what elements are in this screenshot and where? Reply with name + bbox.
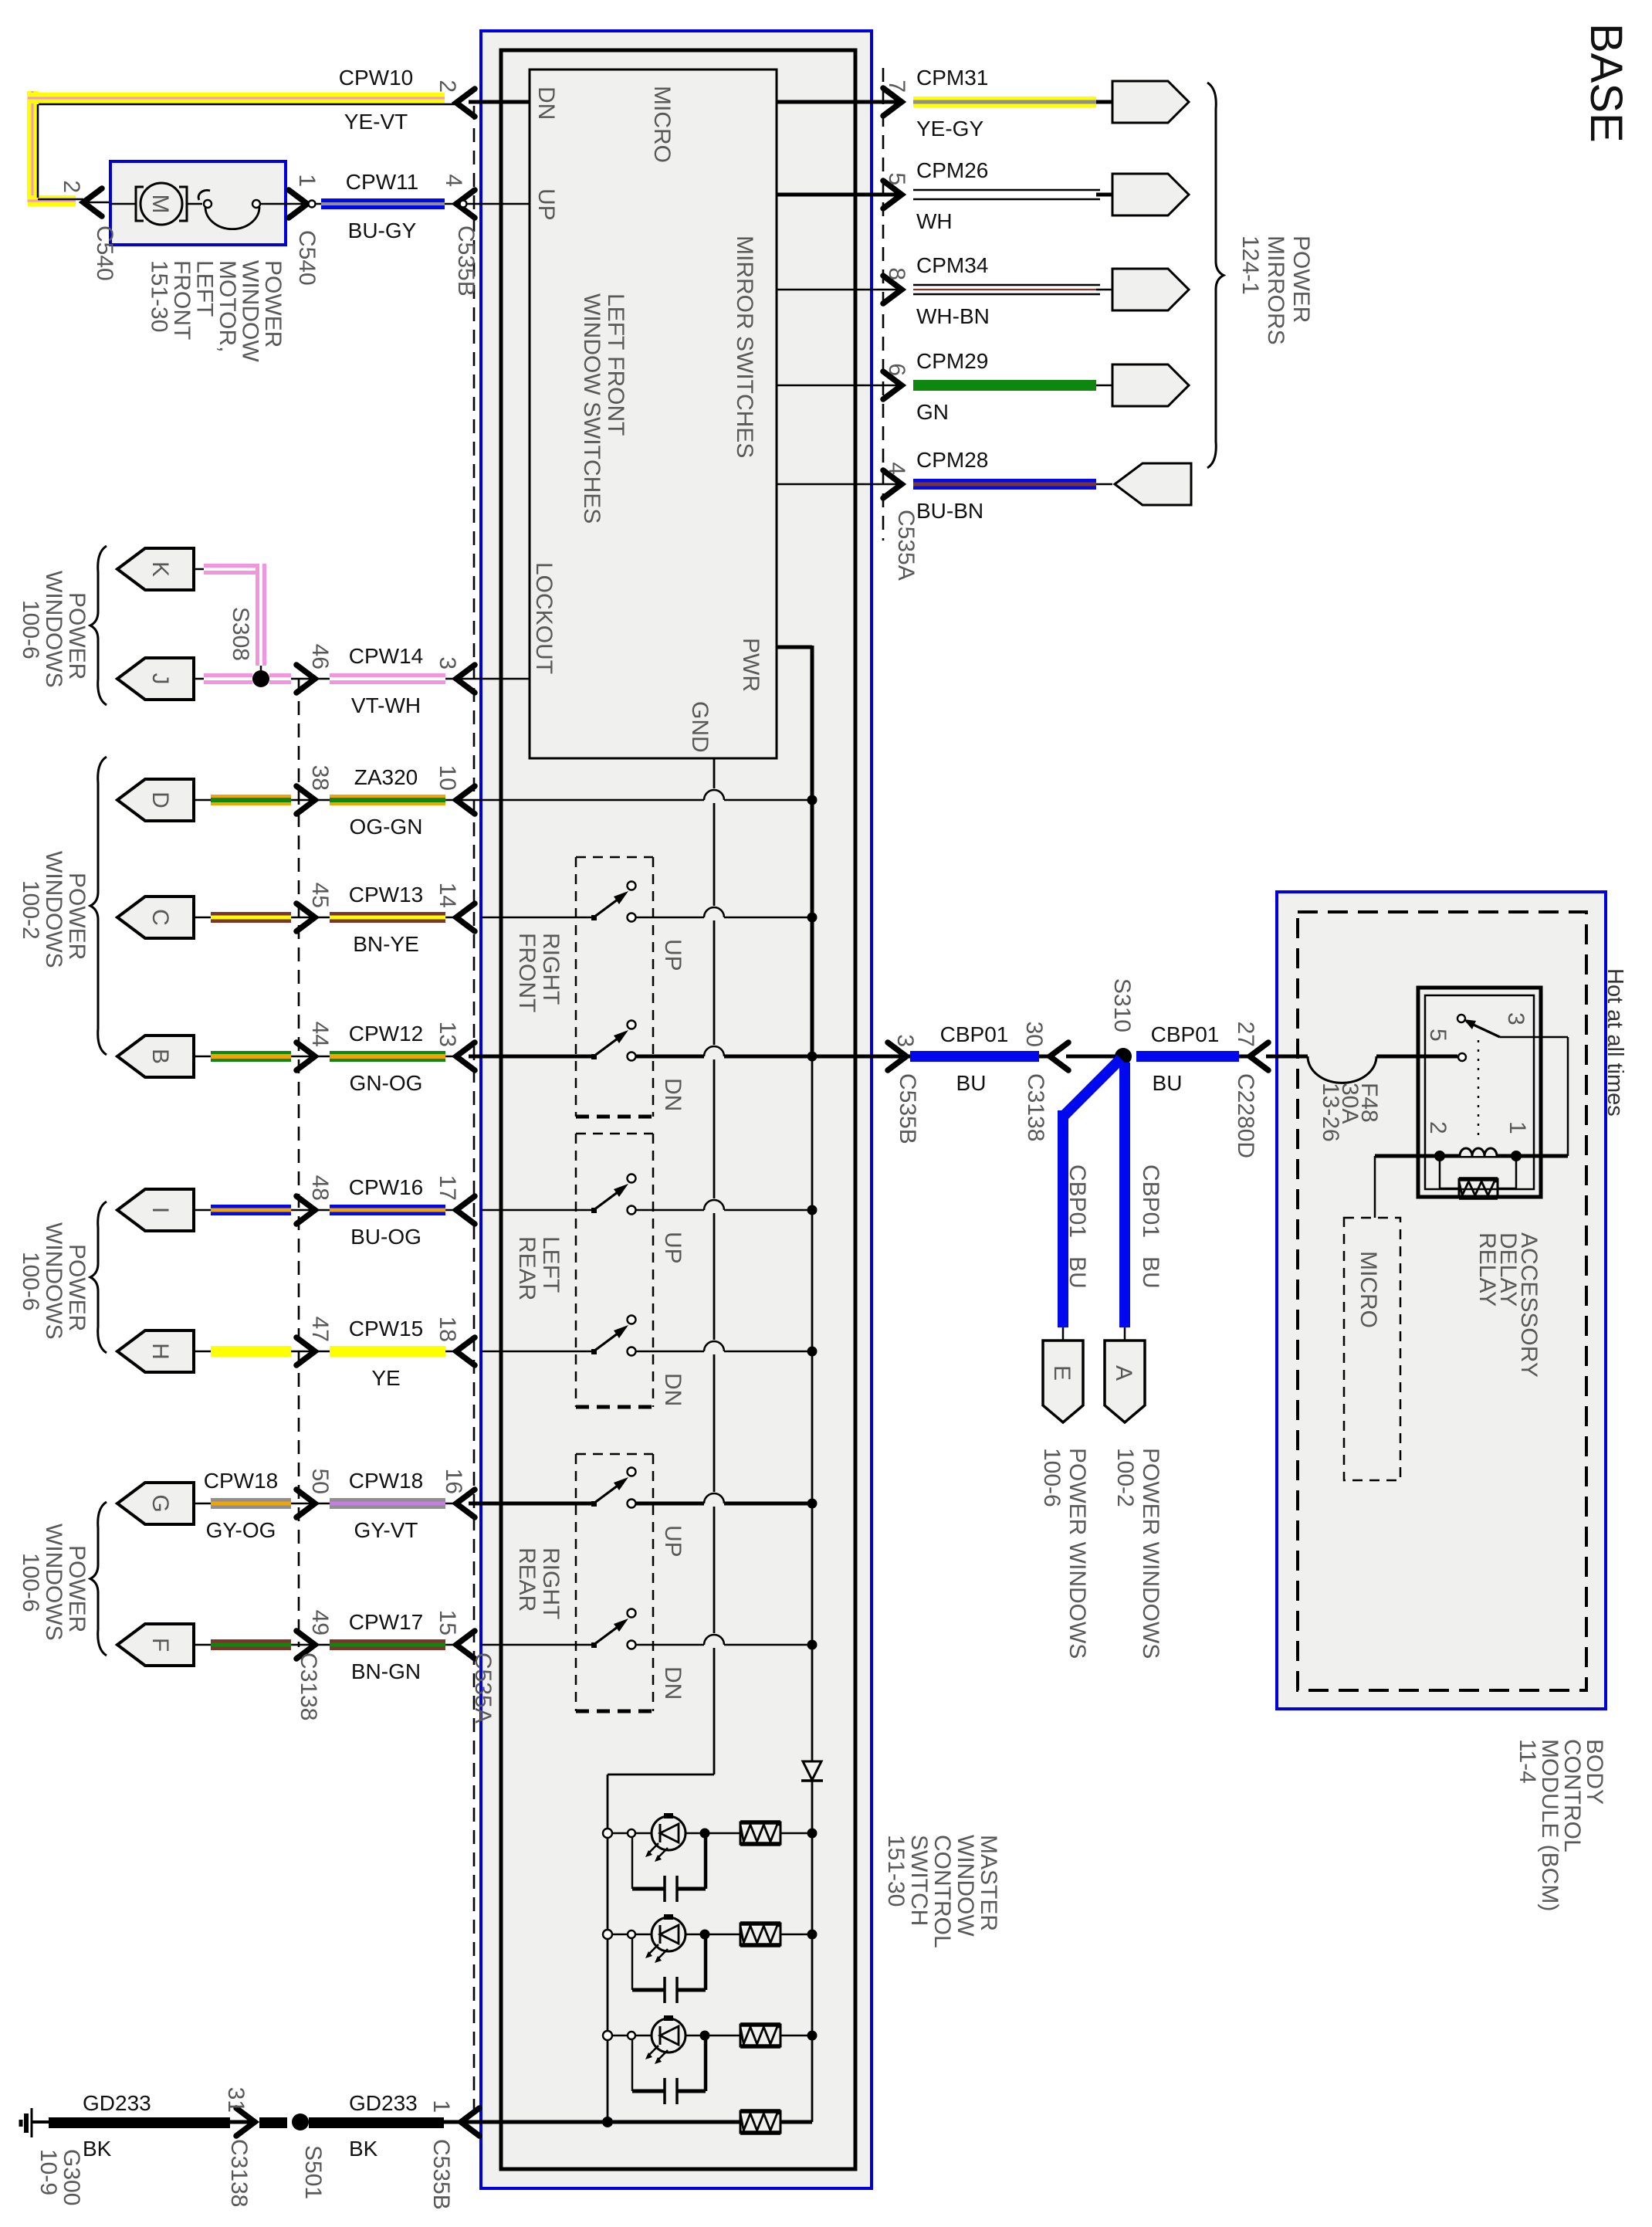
svg-text:C3138: C3138 <box>1023 1073 1048 1141</box>
svg-text:18: 18 <box>435 1317 460 1342</box>
label DN (right front) <box>660 1078 686 1111</box>
label ACCESSORY DELAY RELAY <box>1474 1232 1542 1378</box>
svg-text:3: 3 <box>1503 1012 1528 1025</box>
svg-text:MICRO: MICRO <box>1356 1251 1381 1328</box>
label C535A (mirror side) <box>893 510 919 581</box>
label RIGHT REAR <box>514 1547 564 1619</box>
capacitor C2 (LED row 2) <box>632 1938 706 2003</box>
wire CBP01 BU branch E <box>1058 1059 1121 1341</box>
connector E <box>1043 1341 1083 1422</box>
svg-text:GY-VT: GY-VT <box>354 1518 418 1542</box>
svg-text:CPW12: CPW12 <box>349 1022 423 1046</box>
svg-text:POWER: POWER <box>64 873 90 960</box>
master window control switch module (blue box) <box>481 31 872 2188</box>
label MASTER WINDOW CONTROL SWITCH 151-30 <box>883 1835 1001 1948</box>
label MIRROR SWITCHES <box>732 236 757 458</box>
brace power mirrors <box>1207 83 1224 468</box>
LED indicator 1 <box>603 1813 818 1862</box>
svg-text:BU: BU <box>1065 1256 1090 1289</box>
connector I / wire CPW16 BU-OG <box>117 1175 475 1249</box>
svg-text:BASE: BASE <box>1581 23 1631 143</box>
label Hot at all times <box>1603 968 1627 1117</box>
svg-text:GN: GN <box>916 400 949 424</box>
label UP (left rear) <box>660 1232 686 1264</box>
svg-text:3: 3 <box>435 656 460 669</box>
svg-text:5: 5 <box>1425 1029 1451 1042</box>
svg-text:CPW16: CPW16 <box>349 1175 423 1199</box>
power window motor left front box <box>110 161 286 245</box>
connector line C535A mirror side (dashed) <box>882 68 885 541</box>
svg-text:S310: S310 <box>1109 978 1135 1032</box>
label POWER WINDOWS 100-6 (K J) <box>18 571 90 688</box>
LED indicator 2 <box>603 1914 818 1963</box>
svg-text:CBP01: CBP01 <box>940 1022 1009 1046</box>
svg-text:BU: BU <box>1153 1071 1183 1095</box>
svg-text:GND: GND <box>687 701 713 753</box>
label UP (right rear) <box>660 1525 686 1558</box>
svg-text:100-6: 100-6 <box>1039 1448 1065 1507</box>
connector G / wire CPW18 GY-OG / GY-VT <box>117 1469 475 1542</box>
connector J <box>117 658 194 700</box>
label POWER WINDOWS 100-2 <box>18 851 90 968</box>
label UP (right front) <box>660 939 686 971</box>
svg-text:10-9: 10-9 <box>36 2149 61 2195</box>
svg-text:F: F <box>147 1638 173 1652</box>
wire CPM31 YE-GY <box>777 66 1112 141</box>
wire CBP01 BU branch A <box>1119 1063 1163 1341</box>
svg-text:Hot at all times: Hot at all times <box>1603 968 1627 1117</box>
svg-text:POWER: POWER <box>64 592 90 680</box>
wire CBP01 BU (S310 to BCM) <box>1151 1022 1308 1158</box>
svg-text:CBP01: CBP01 <box>1151 1022 1220 1046</box>
svg-text:DN: DN <box>533 86 559 120</box>
connector K <box>117 548 194 590</box>
svg-text:BU-OG: BU-OG <box>350 1225 421 1249</box>
svg-text:GD233: GD233 <box>83 2091 151 2115</box>
relay contact wire to pin 1 <box>1500 1037 1568 1156</box>
relay coil <box>1375 1148 1568 1161</box>
svg-text:6: 6 <box>884 363 909 376</box>
connector B / wire CPW12 GN-OG <box>117 1022 475 1095</box>
connector line C3138 (dashed) <box>298 679 300 1647</box>
svg-text:LOCKOUT: LOCKOUT <box>531 562 557 674</box>
label RIGHT FRONT <box>514 933 564 1012</box>
switch left rear DN <box>481 1316 818 1357</box>
connector F / wire CPW17 BN-GN <box>117 1610 475 1683</box>
svg-text:YE: YE <box>371 1366 400 1390</box>
svg-text:POWER WINDOWS: POWER WINDOWS <box>1138 1448 1163 1659</box>
svg-text:S501: S501 <box>300 2145 326 2199</box>
svg-text:J: J <box>147 673 173 685</box>
PWR feed from switch block <box>777 646 812 1761</box>
svg-text:LEFT: LEFT <box>538 1236 564 1293</box>
svg-text:BN-YE: BN-YE <box>353 932 419 956</box>
svg-text:CPM29: CPM29 <box>916 349 988 373</box>
svg-text:UP: UP <box>533 188 559 221</box>
svg-text:124-1: 124-1 <box>1237 236 1263 295</box>
mirror connector (CPM31) <box>1112 81 1189 123</box>
svg-text:11-4: 11-4 <box>1515 1739 1540 1784</box>
svg-text:K: K <box>147 561 173 577</box>
svg-text:WINDOWS: WINDOWS <box>41 1222 66 1340</box>
motor circuit breaker <box>187 190 286 229</box>
splice S310 <box>1109 978 1135 1065</box>
svg-text:100-2: 100-2 <box>18 880 43 940</box>
svg-text:WINDOWS: WINDOWS <box>41 571 66 688</box>
svg-text:16: 16 <box>441 1469 466 1494</box>
svg-text:C535B: C535B <box>453 225 479 297</box>
svg-text:MOTOR,: MOTOR, <box>215 260 240 352</box>
svg-text:REAR: REAR <box>514 1547 540 1612</box>
label PWR <box>738 638 763 692</box>
left front window switches block <box>530 69 777 758</box>
svg-text:14: 14 <box>435 883 460 908</box>
svg-text:VT-WH: VT-WH <box>351 693 421 717</box>
wire ZA320 inside module to PWR bus <box>456 790 818 805</box>
svg-text:UP: UP <box>660 939 686 971</box>
svg-text:POWER WINDOWS: POWER WINDOWS <box>1065 1448 1090 1659</box>
label POWER WINDOWS 100-6 (I H) <box>18 1222 90 1340</box>
connector line C535B/C535A (dashed) <box>473 106 476 2124</box>
label LOCKOUT <box>531 562 557 674</box>
svg-text:DN: DN <box>660 1373 686 1406</box>
label UP pin <box>533 188 559 221</box>
svg-text:4: 4 <box>884 462 909 475</box>
svg-text:31: 31 <box>223 2087 249 2113</box>
svg-text:38: 38 <box>307 765 333 791</box>
svg-text:POWER: POWER <box>64 1545 90 1632</box>
svg-text:100-6: 100-6 <box>18 1553 43 1612</box>
splice S308 <box>228 607 269 687</box>
micro dashed box (BCM) <box>1344 1218 1400 1480</box>
wire CPW14 VT-WH <box>194 644 530 717</box>
mirror connector (CPM28, left pointing) <box>1115 463 1191 505</box>
svg-text:C: C <box>147 909 173 926</box>
switch right rear UP (thick) <box>469 1468 818 1509</box>
switch left rear UP <box>481 1175 818 1215</box>
svg-text:LEFT FRONT: LEFT FRONT <box>603 293 628 436</box>
label LEFT REAR <box>514 1236 564 1300</box>
label DN (right rear) <box>660 1666 686 1700</box>
svg-text:44: 44 <box>307 1022 333 1047</box>
capacitor C1 (LED row 1) <box>632 1837 706 1902</box>
motor M symbol <box>110 183 187 225</box>
svg-text:BU: BU <box>1138 1256 1163 1289</box>
label DN pin <box>533 86 559 120</box>
svg-text:MIRROR SWITCHES: MIRROR SWITCHES <box>732 236 757 458</box>
svg-text:I: I <box>147 1207 173 1213</box>
svg-text:WINDOW: WINDOW <box>953 1835 978 1937</box>
svg-text:1: 1 <box>294 174 320 187</box>
wire CPW10 YE-VT <box>27 66 530 216</box>
svg-text:49: 49 <box>307 1610 333 1636</box>
svg-text:CPM31: CPM31 <box>916 66 988 90</box>
label GND <box>687 701 713 753</box>
capacitor C3 (LED row 3) <box>632 2039 706 2104</box>
svg-text:MIRRORS: MIRRORS <box>1263 236 1288 345</box>
right rear switch dashed box <box>576 1454 653 1711</box>
label POWER WINDOWS 100-6 (E) <box>1039 1448 1090 1659</box>
svg-text:WH-BN: WH-BN <box>916 304 990 328</box>
wire CPM28 BU-BN <box>777 448 1112 523</box>
svg-text:C535A: C535A <box>893 510 919 581</box>
fuse F48 30A 13-26 <box>1266 1056 1457 1142</box>
svg-text:RELAY: RELAY <box>1474 1232 1500 1307</box>
svg-text:151-30: 151-30 <box>883 1835 909 1907</box>
left rear switch dashed box <box>576 1134 653 1407</box>
connector A <box>1105 1341 1145 1422</box>
svg-text:BK: BK <box>83 2137 112 2161</box>
svg-text:C3138: C3138 <box>226 2139 252 2207</box>
svg-text:REAR: REAR <box>514 1236 540 1300</box>
switch right front UP <box>481 882 818 923</box>
svg-text:45: 45 <box>307 883 333 908</box>
switch right front DN (thick trunk) <box>469 1021 872 1062</box>
svg-text:UP: UP <box>660 1232 686 1264</box>
mirror connector (CPM29) <box>1112 364 1189 406</box>
svg-text:RIGHT: RIGHT <box>538 933 564 1005</box>
svg-text:WINDOWS: WINDOWS <box>41 1524 66 1641</box>
svg-text:CPW11: CPW11 <box>346 170 418 194</box>
connector C540 labels <box>92 225 320 286</box>
svg-text:SWITCH: SWITCH <box>906 1835 932 1926</box>
svg-text:C535B: C535B <box>428 2139 454 2210</box>
label LEFT FRONT WINDOW SWITCHES <box>579 293 628 524</box>
svg-text:BU-BN: BU-BN <box>916 499 983 523</box>
ground G300 <box>21 2108 50 2137</box>
wire CPM34 WH-BN <box>777 253 1112 328</box>
svg-text:BU-GY: BU-GY <box>348 219 417 242</box>
svg-text:13-26: 13-26 <box>1318 1083 1343 1142</box>
mirror connector (CPM34) <box>1112 269 1189 310</box>
svg-text:WINDOW SWITCHES: WINDOW SWITCHES <box>579 293 604 524</box>
svg-text:CPM34: CPM34 <box>916 253 988 277</box>
svg-text:15: 15 <box>435 1610 460 1636</box>
svg-text:G: G <box>147 1494 173 1512</box>
svg-text:BU: BU <box>956 1071 987 1095</box>
accessory delay relay box <box>1418 988 1541 1197</box>
wire CPM26 WH <box>777 158 1112 233</box>
svg-text:D: D <box>147 791 173 808</box>
svg-text:30: 30 <box>1021 1022 1047 1047</box>
connector C / wire CPW13 BN-YE <box>117 883 475 956</box>
svg-text:FRONT: FRONT <box>169 260 195 340</box>
svg-text:GY-OG: GY-OG <box>206 1518 276 1542</box>
svg-text:CONTROL: CONTROL <box>929 1835 955 1948</box>
wire CPW11 BU-GY <box>286 170 530 297</box>
svg-text:1: 1 <box>1505 1121 1530 1134</box>
connector D / wire ZA320 OG-GN <box>117 765 475 839</box>
splice S501 <box>259 2113 326 2199</box>
svg-text:CPW15: CPW15 <box>349 1317 423 1341</box>
svg-text:CPW14: CPW14 <box>349 644 423 668</box>
svg-text:CPW17: CPW17 <box>349 1610 423 1634</box>
label POWER WINDOW MOTOR LEFT FRONT 151-30 <box>147 260 286 362</box>
svg-text:CBP01: CBP01 <box>1138 1164 1163 1238</box>
label POWER WINDOWS 100-2 (A) <box>1112 1448 1163 1659</box>
svg-text:13: 13 <box>435 1022 460 1047</box>
svg-text:C540: C540 <box>92 225 117 281</box>
svg-text:S308: S308 <box>228 607 253 661</box>
label DN (left rear) <box>660 1373 686 1406</box>
brace power windows 100-2 (D C B) <box>90 757 107 1055</box>
svg-text:48: 48 <box>307 1175 333 1201</box>
wire GD233 BK (right) <box>309 2091 613 2210</box>
svg-text:DN: DN <box>660 1078 686 1111</box>
svg-text:WH: WH <box>916 209 953 233</box>
svg-text:BK: BK <box>349 2137 378 2161</box>
svg-text:CPW18: CPW18 <box>349 1469 423 1493</box>
svg-text:2: 2 <box>435 80 460 93</box>
svg-text:1: 1 <box>428 2100 454 2113</box>
switch right rear DN <box>481 1609 818 1650</box>
label POWER MIRRORS 124-1 <box>1237 236 1314 345</box>
wire CBP01 BU (module to S310) <box>872 1022 1239 1144</box>
master window control switch outer outline <box>501 50 855 2169</box>
svg-text:46: 46 <box>307 644 333 669</box>
svg-text:A: A <box>1111 1365 1136 1381</box>
svg-text:151-30: 151-30 <box>147 260 172 332</box>
svg-text:RIGHT: RIGHT <box>538 1547 564 1619</box>
svg-text:BN-GN: BN-GN <box>351 1659 421 1683</box>
svg-text:C3138: C3138 <box>296 1652 321 1720</box>
svg-text:100-6: 100-6 <box>18 600 43 659</box>
svg-text:G300: G300 <box>59 2149 84 2205</box>
svg-text:C2280D: C2280D <box>1233 1073 1258 1158</box>
svg-text:CPM26: CPM26 <box>916 158 988 182</box>
svg-text:100-6: 100-6 <box>18 1252 43 1311</box>
wire relay to micro <box>1374 1156 1376 1218</box>
svg-text:GD233: GD233 <box>349 2091 418 2115</box>
label G300 10-9 <box>36 2149 84 2205</box>
svg-text:C540: C540 <box>294 230 320 286</box>
mirror connector (CPM26) <box>1112 174 1189 215</box>
svg-text:47: 47 <box>307 1317 333 1342</box>
svg-text:10: 10 <box>435 765 460 791</box>
wire CPM29 GN <box>777 349 1112 424</box>
title BASE <box>1581 23 1631 143</box>
svg-text:CPM28: CPM28 <box>916 448 988 472</box>
label POWER WINDOWS 100-6 (G F) <box>18 1524 90 1641</box>
label BODY CONTROL MODULE (BCM) 11-4 <box>1515 1739 1607 1911</box>
svg-text:LEFT: LEFT <box>192 260 218 317</box>
svg-text:UP: UP <box>660 1525 686 1558</box>
svg-text:50: 50 <box>307 1469 333 1494</box>
svg-text:B: B <box>147 1049 173 1064</box>
svg-text:7: 7 <box>884 80 909 93</box>
BCM dashed border <box>1298 912 1586 1690</box>
svg-text:MASTER: MASTER <box>976 1835 1001 1931</box>
svg-text:POWER: POWER <box>64 1244 90 1331</box>
svg-text:WINDOW: WINDOW <box>238 260 263 362</box>
brace power windows 100-6 (I H) <box>90 1202 107 1353</box>
relay resistor <box>1440 1156 1516 1198</box>
svg-text:E: E <box>1049 1365 1075 1381</box>
connector H / wire CPW15 YE <box>117 1317 475 1390</box>
svg-text:ZA320: ZA320 <box>354 765 418 789</box>
svg-text:CPW18: CPW18 <box>204 1469 278 1493</box>
brace power windows 100-6 (K J) <box>90 546 107 705</box>
svg-text:2: 2 <box>1425 1121 1451 1134</box>
svg-text:YE-VT: YE-VT <box>344 110 408 134</box>
connector labels C3138 and C535A at bottom <box>296 1652 496 1724</box>
svg-text:GN-OG: GN-OG <box>350 1071 423 1095</box>
wire from K to S308 (VT-WH) <box>194 564 266 670</box>
relay pin 5 and switch <box>1425 1012 1530 1142</box>
label MICRO (BCM) <box>1356 1251 1381 1328</box>
svg-text:C535A: C535A <box>470 1652 496 1724</box>
wire GD233 BK (left) <box>49 2087 255 2208</box>
svg-text:3: 3 <box>892 1034 918 1047</box>
svg-text:MICRO: MICRO <box>649 86 675 163</box>
right front switch dashed box <box>576 857 653 1117</box>
svg-text:100-2: 100-2 <box>1112 1448 1138 1507</box>
svg-text:OG-GN: OG-GN <box>350 815 423 839</box>
svg-text:8: 8 <box>884 267 909 280</box>
svg-text:5: 5 <box>884 172 909 185</box>
GND bus <box>608 758 714 2122</box>
svg-text:PWR: PWR <box>738 638 763 692</box>
LED indicator 3 <box>603 2015 818 2064</box>
brace power windows 100-6 (G F) <box>90 1502 107 1656</box>
svg-text:DN: DN <box>660 1666 686 1700</box>
svg-text:C535B: C535B <box>895 1073 920 1144</box>
svg-text:CBP01: CBP01 <box>1065 1164 1090 1238</box>
svg-text:YE-GY: YE-GY <box>916 117 983 141</box>
resistor R4 (illumination row) <box>612 2035 812 2133</box>
svg-text:H: H <box>147 1343 173 1360</box>
svg-text:CPW13: CPW13 <box>349 883 423 907</box>
svg-text:CPW10: CPW10 <box>339 66 413 90</box>
svg-text:WINDOWS: WINDOWS <box>41 851 66 968</box>
svg-text:FRONT: FRONT <box>514 933 540 1012</box>
svg-text:POWER: POWER <box>260 260 286 347</box>
svg-text:2: 2 <box>59 180 84 193</box>
svg-text:M: M <box>147 195 173 214</box>
svg-text:17: 17 <box>435 1175 460 1201</box>
svg-text:4: 4 <box>441 174 466 187</box>
label MICRO (switch module) <box>649 86 675 163</box>
svg-text:27: 27 <box>1233 1022 1258 1047</box>
diode (module internal) <box>801 1761 823 2035</box>
body control module box (blue) <box>1277 892 1606 1709</box>
svg-text:POWER: POWER <box>1288 236 1314 323</box>
